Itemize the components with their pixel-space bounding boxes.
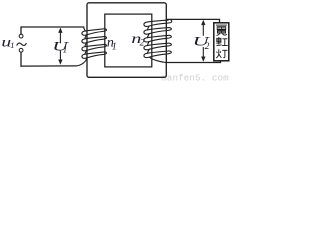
secondary coil n2 turn 5 <box>144 51 171 58</box>
wire: secondary bottom output to neon lamp <box>166 61 221 63</box>
secondary coil n2 turn 2-3 connector <box>148 34 150 38</box>
svg-text:1: 1 <box>10 40 14 50</box>
voltage U2 up arrow <box>202 24 204 35</box>
voltage U1 up arrow <box>59 32 61 44</box>
svg-text:manfen5. com: manfen5. com <box>161 72 229 83</box>
svg-text:2: 2 <box>205 42 210 52</box>
primary coil n1 bottom lead-out <box>76 58 87 66</box>
AC source u1 top terminal circle <box>19 34 23 38</box>
primary coil n1 turn 4 <box>82 52 107 58</box>
primary coil n1 turn 1 <box>82 29 107 35</box>
neon lamp label: character 虹 <box>216 37 227 45</box>
secondary coil n2 turn 3-4 connector <box>148 42 150 46</box>
transformer core: outer rectangle <box>87 3 166 78</box>
wire: left loop top (from source to primary coil) <box>21 26 84 28</box>
secondary coil n2 turn 1-2 connector <box>148 26 150 30</box>
primary coil n1 turn 2 <box>82 37 107 43</box>
neon lamp label: character 灯 <box>216 49 227 58</box>
AC source u1 bottom terminal circle <box>19 48 23 52</box>
wire: left loop bottom (slightly sloped, to primary coil) <box>21 65 76 67</box>
secondary coil n2 turn 4-5 connector <box>148 49 150 53</box>
svg-text:1: 1 <box>112 41 117 52</box>
secondary coil n2 bottom lead-out (sloping to bottom wire) <box>149 57 166 62</box>
secondary coil n2 turn 4 <box>144 43 171 50</box>
primary coil n1 top lead-in stub <box>84 27 86 31</box>
secondary coil n2 turn 2 <box>144 28 171 35</box>
neon lamp label: character 霓 <box>216 25 227 35</box>
voltage U2 down arrow <box>202 47 204 57</box>
svg-text:1: 1 <box>63 46 68 56</box>
transformer core: inner window rectangle <box>105 14 152 67</box>
neon lamp box <box>214 23 229 61</box>
primary coil n1 turn 3 <box>82 44 107 50</box>
primary coil n1 turn 2-3 connector <box>85 43 87 47</box>
wire: secondary top output to neon lamp <box>166 19 219 22</box>
secondary coil n2 turn 1 (top, hooks to output wire) <box>144 20 172 27</box>
primary coil n1 turn 1-2 connector <box>85 35 87 39</box>
wire: left loop left lower segment <box>20 53 22 67</box>
wire: left loop left upper segment <box>20 27 22 34</box>
primary coil n1 turn 3-4 connector <box>85 51 87 55</box>
secondary coil n2 turn 3 <box>144 35 171 42</box>
AC source u1 tilde symbol <box>17 43 26 45</box>
voltage U1 down arrow <box>59 51 61 61</box>
